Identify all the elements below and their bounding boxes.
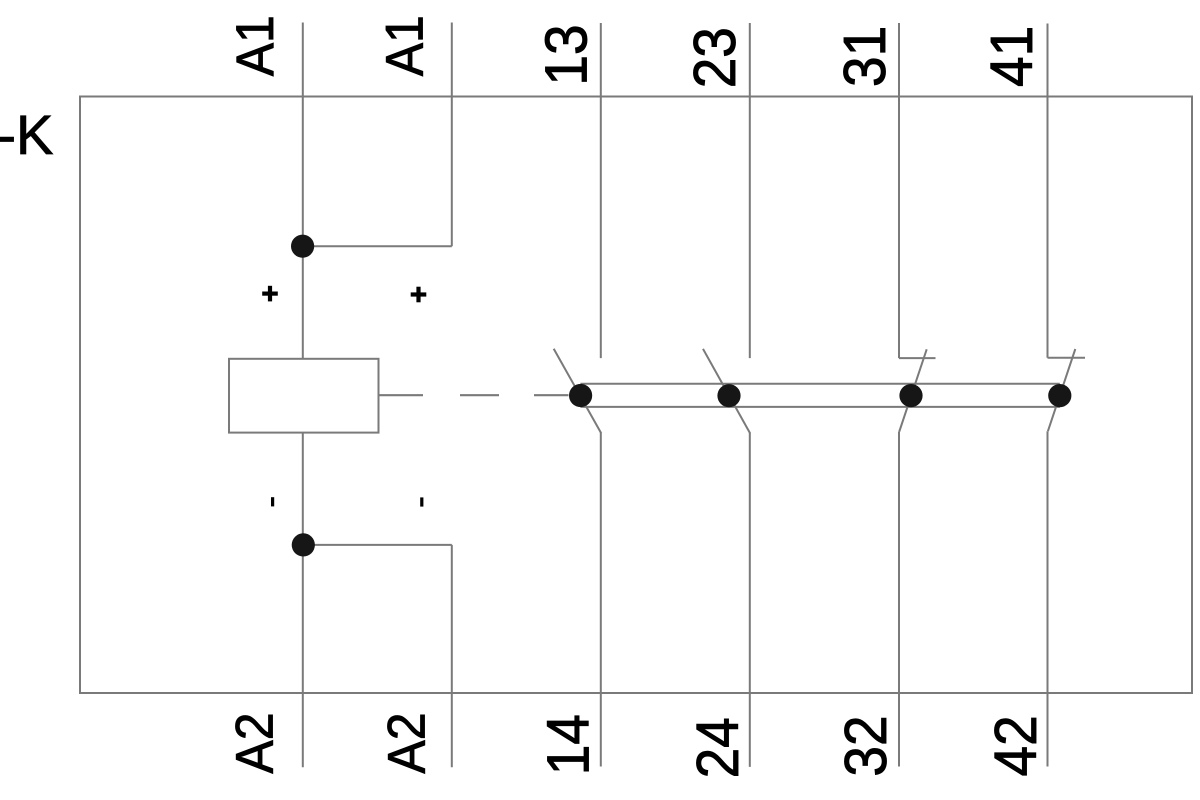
NO contact lever 13-14 <box>554 349 602 434</box>
svg-text:A2: A2 <box>225 712 283 773</box>
NC contact lever 41-42 <box>1048 349 1075 431</box>
node contact 4 <box>1048 384 1071 407</box>
wire contact 24 lead <box>749 433 751 767</box>
wire contact 41 lead <box>1047 24 1049 358</box>
wire A1 lead upper <box>302 23 304 359</box>
wire contact 42 lead <box>1047 431 1049 766</box>
svg-text:14: 14 <box>535 714 601 775</box>
svg-text:-K: -K <box>0 103 53 166</box>
wire second A2 lead lower <box>451 545 453 767</box>
wire second A1 lead upper <box>451 23 453 247</box>
actuator dashed link from coil <box>378 394 569 396</box>
node contact 2 <box>717 384 740 407</box>
svg-text:32: 32 <box>833 715 899 776</box>
svg-text:41: 41 <box>979 26 1045 87</box>
node contact 3 <box>899 384 922 407</box>
junction node A2 <box>292 533 315 556</box>
polarity - (left) <box>271 497 274 506</box>
junction node A1 <box>291 235 314 258</box>
wire contact 14 lead <box>600 433 602 767</box>
enclosure border <box>80 97 1192 694</box>
actuator rail upper <box>581 383 1060 385</box>
svg-text:31: 31 <box>832 26 898 87</box>
NO contact lever 23-24 <box>703 349 750 434</box>
svg-text:A2: A2 <box>377 712 435 773</box>
svg-text:42: 42 <box>983 715 1049 776</box>
node contact 1 <box>569 384 592 407</box>
NC contact foot 31 <box>899 357 936 359</box>
svg-text:24: 24 <box>685 717 751 778</box>
wire link between A1 leads <box>303 245 452 247</box>
svg-text:A1: A1 <box>226 15 284 76</box>
wire contact 13 lead <box>600 23 602 358</box>
polarity - (right) <box>420 497 423 506</box>
svg-text:23: 23 <box>682 27 748 88</box>
wire link between A2 leads <box>303 544 452 546</box>
actuator rail lower <box>581 406 1060 408</box>
coil K1 <box>229 359 379 433</box>
wire contact 32 lead <box>898 432 900 767</box>
wire contact 23 lead <box>749 23 751 358</box>
wire contact 31 lead <box>898 23 900 358</box>
polarity + (right) <box>411 287 427 303</box>
wire A2 lead lower (coil bottom) <box>302 433 304 768</box>
svg-text:A1: A1 <box>375 15 433 76</box>
NC contact foot 41 <box>1048 357 1086 359</box>
svg-text:13: 13 <box>534 24 600 85</box>
NC contact lever 31-32 <box>899 349 926 431</box>
polarity + (left) <box>262 286 278 302</box>
